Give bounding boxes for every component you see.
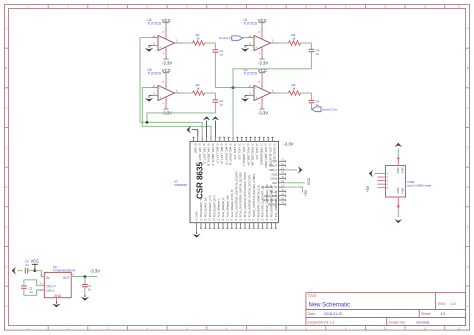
svg-text:SPK_RIGHT_P: SPK_RIGHT_P <box>211 147 215 166</box>
svg-text:Aout_Whisper_Mic: Aout_Whisper_Mic <box>226 195 230 217</box>
capacitor C7 <box>84 277 86 284</box>
svg-text:1.0: 1.0 <box>451 302 456 306</box>
node A junction <box>232 86 235 89</box>
op-amp U4 pin 8 V+ to VCC <box>165 23 167 39</box>
svg-text:1k: 1k <box>196 87 200 91</box>
svg-text:USB_N: USB_N <box>269 168 278 172</box>
capacitor C2 <box>214 93 216 100</box>
svg-text:TL072CD: TL072CD <box>148 72 162 76</box>
op-amp U5 pin 8 V+ to VCC <box>165 73 167 89</box>
svg-text:G: G <box>5 264 7 268</box>
op-amp U5 TL072CD <box>158 86 175 101</box>
svg-text:-3.3V: -3.3V <box>258 110 268 115</box>
op-amp U1 pin 4 V- to -3.3V <box>261 47 263 59</box>
resistor R4 <box>277 42 289 44</box>
svg-text:1/1: 1/1 <box>441 312 446 316</box>
svg-text:+5V: +5V <box>366 185 370 192</box>
svg-text:1u: 1u <box>316 52 320 56</box>
svg-text:RESET: RESET <box>269 202 278 206</box>
svg-text:LED_RED_PWM: LED_RED_PWM <box>264 147 268 168</box>
svg-text:AIO2_1V5: AIO2_1V5 <box>255 147 259 160</box>
svg-text:Aout_Whisper_L: Aout_Whisper_L <box>217 197 221 217</box>
svg-text:-3.3V: -3.3V <box>284 142 294 147</box>
svg-text:GND: GND <box>54 294 62 298</box>
wire C2 to loop junction <box>147 102 215 122</box>
arrow microphone left <box>187 126 191 134</box>
op-amp U4 pin 3 (non-inverting input) <box>152 44 159 46</box>
svg-text:C: C <box>467 106 469 110</box>
wire C1 to node A <box>215 52 247 87</box>
svg-text:PIO11/UART_RX: PIO11/UART_RX <box>204 197 208 217</box>
svg-text:SPK_RIGHT_N: SPK_RIGHT_N <box>207 147 211 166</box>
op-amp U1 pin 3 (non-inverting input) <box>248 44 255 46</box>
op-amp U4 pin 1 (output) <box>175 42 181 44</box>
svg-text:VCC: VCC <box>162 68 171 73</box>
svg-text:SPDIF_OUT/PCM_OUT/SPI_CSB/PC: SPDIF_OUT/PCM_OUT/SPI_CSB/PC <box>252 173 256 217</box>
svg-text:BAT: BAT <box>272 181 277 185</box>
capacitor C4 <box>310 43 312 49</box>
op-amp U1 TL072CD <box>254 36 271 51</box>
arrow left at C6 <box>12 267 16 275</box>
svg-text:1u: 1u <box>25 263 29 267</box>
svg-text:-3.3V: -3.3V <box>90 269 100 274</box>
wire USB_N to arrow <box>285 169 297 171</box>
svg-text:E: E <box>467 185 469 189</box>
svg-text:MID4: MID4 <box>401 188 405 195</box>
svg-text:micro USBFemale: micro USBFemale <box>407 184 432 188</box>
svg-text:TITLE:: TITLE: <box>308 294 318 298</box>
svg-text:VCC: VCC <box>30 259 39 264</box>
border division ticks <box>47 5 49 9</box>
svg-text:MID2: MID2 <box>401 167 405 174</box>
connector USB1 top shield pin <box>397 159 399 165</box>
connector USB1 left pins 1-5 <box>377 173 385 175</box>
op-amp U5 pin 3 (non-inverting input) <box>152 94 159 96</box>
svg-text:B: B <box>6 66 8 70</box>
ground at U1 pin 3 <box>245 44 248 46</box>
op-amp U2 pin 2 (inverting input) <box>248 87 255 89</box>
op-amp U4 pin 2 (inverting input) <box>152 37 159 39</box>
svg-text:GND: GND <box>272 172 278 176</box>
capacitor C1 <box>214 43 216 50</box>
svg-text:CFLY+: CFLY+ <box>46 284 56 288</box>
wire BAT to VCC label <box>285 182 305 184</box>
arrow to speaker left <box>203 116 211 120</box>
svg-text:PIO16/SPI_CSB/PCM_CLK: PIO16/SPI_CSB/PCM_CLK <box>256 185 260 217</box>
svg-text:clomads: clomads <box>416 321 430 325</box>
ground at U2 pin 3 <box>245 94 248 96</box>
op-amp U1 pin 1 (output) <box>271 42 277 44</box>
svg-text:TPS60400DBVR: TPS60400DBVR <box>53 268 76 272</box>
resistor R1 <box>181 42 193 44</box>
IC U6 TPS60400DBVR body <box>44 272 71 297</box>
wire U4 feedback loop to CSR pin <box>140 38 202 137</box>
svg-text:G: G <box>467 264 469 268</box>
svg-text:VCC: VCC <box>307 177 311 185</box>
op-amp U2 TL072CD <box>254 86 271 101</box>
wire VCC node to IN pin <box>35 271 44 277</box>
svg-text:CFLY-: CFLY- <box>46 289 55 293</box>
svg-text:AIO0_1V5: AIO0_1V5 <box>233 147 237 160</box>
connector USB1 bottom shield pin <box>397 197 399 205</box>
svg-text:EasyEDA V5.1.3: EasyEDA V5.1.3 <box>308 321 335 325</box>
capacitor C5 flying cap loop <box>24 280 42 286</box>
op-amp U4 TL072CD <box>158 36 175 51</box>
svg-text:1u: 1u <box>220 103 224 107</box>
op-amp U2 pin 3 (non-inverting input) <box>248 94 255 96</box>
svg-text:CSR 8635: CSR 8635 <box>196 162 205 199</box>
svg-text:PCM_SYNC/SPDIF_IN/PCM_OUT/SPI: PCM_SYNC/SPDIF_IN/PCM_OUT/SPI <box>239 172 243 217</box>
IC U3 right pins and labels <box>279 160 286 162</box>
wire USB1 pin1 to arrow <box>374 173 377 175</box>
arrow up at USB1 top <box>395 143 403 147</box>
svg-text:PIO12/UART_CTS: PIO12/UART_CTS <box>208 195 212 217</box>
arrow down at USB1 bottom <box>395 219 403 223</box>
op-amp U1 pin 8 V+ to VCC <box>261 23 263 39</box>
arrow to speaker right <box>212 116 220 120</box>
svg-text:Sound In: Sound In <box>219 36 232 40</box>
svg-text:LED_GREEN_1: LED_GREEN_1 <box>242 147 246 167</box>
svg-text:D: D <box>467 146 469 150</box>
op-amp U5 pin 1 (output) <box>175 92 181 94</box>
svg-text:1k: 1k <box>292 87 296 91</box>
svg-text:A: A <box>6 27 8 31</box>
capacitor C6 <box>17 270 23 272</box>
IC U6 pin stubs <box>42 284 45 286</box>
op-amp U1 pin 2 (inverting input) <box>248 37 255 39</box>
svg-text:GND: GND <box>194 147 198 153</box>
IC U3 bottom pins <box>196 223 198 232</box>
svg-text:PIO0_USB_DN: PIO0_USB_DN <box>251 147 255 166</box>
svg-text:CHARGE_5V: CHARGE_5V <box>262 185 278 189</box>
svg-text:D: D <box>5 146 7 150</box>
svg-text:TL072CD: TL072CD <box>148 22 162 26</box>
arrow left at USB1 pin1 <box>369 170 373 178</box>
svg-text:MIC_RIGHT_P: MIC_RIGHT_P <box>224 147 228 165</box>
capacitor C3 <box>310 93 312 100</box>
port Sound Out <box>310 103 312 109</box>
svg-text:PCM_OUT/SPDIF_OUT/PCM_CLK/SPI: PCM_OUT/SPDIF_OUT/PCM_CLK/SPI <box>234 171 238 217</box>
op-amp U2 pin 1 (output) <box>271 92 277 94</box>
svg-text:PCM_CLK/PCM_SYNC/SPDIF_OUT/S: PCM_CLK/PCM_SYNC/SPDIF_OUT/S <box>243 172 247 217</box>
svg-text:-3.3V: -3.3V <box>162 60 172 65</box>
svg-text:2018-01-25: 2018-01-25 <box>324 312 342 316</box>
svg-text:REV:: REV: <box>438 302 446 306</box>
svg-text:PCM_IN/SPDIF_IN/PCM_SYNC/SPI: PCM_IN/SPDIF_IN/PCM_SYNC/SPI <box>248 175 252 218</box>
svg-text:Drawn By:: Drawn By: <box>389 321 406 325</box>
svg-text:TL072CD: TL072CD <box>244 22 258 26</box>
connector USB1 body <box>386 166 406 198</box>
wire CHARGE_5V to +5V label <box>285 187 302 192</box>
svg-text:AIO1_1V5: AIO1_1V5 <box>238 147 242 160</box>
ground at IC U3 bottom GND pin <box>196 232 198 234</box>
svg-text:Date:: Date: <box>308 312 317 316</box>
svg-text:A: A <box>467 27 469 31</box>
svg-text:GND: GND <box>195 211 199 217</box>
svg-text:MIC_RIGHT_N: MIC_RIGHT_N <box>229 147 233 165</box>
svg-text:1k: 1k <box>196 37 200 41</box>
svg-text:CSR8635: CSR8635 <box>174 183 187 187</box>
resistor R3 <box>277 92 289 94</box>
op-amp U5 pin 2 (inverting input) <box>152 87 159 89</box>
svg-text:MID1: MID1 <box>396 167 400 174</box>
svg-text:PIO13/UART_RTS: PIO13/UART_RTS <box>212 195 216 217</box>
IC U3 CSR8635 body <box>190 141 279 222</box>
svg-text:1u: 1u <box>88 288 92 292</box>
svg-text:-3.3V: -3.3V <box>258 60 268 65</box>
op-amp U5 pin 4 V- to -3.3V <box>165 97 167 109</box>
svg-text:1u: 1u <box>29 290 33 294</box>
ground at IC U6 GND pin <box>55 302 57 304</box>
ground at C7 <box>84 295 86 297</box>
title block frame <box>306 293 466 326</box>
svg-text:H: H <box>5 304 7 308</box>
svg-text:Sheet:: Sheet: <box>421 312 431 316</box>
svg-text:SPK_LEFT_P: SPK_LEFT_P <box>202 147 206 164</box>
svg-text:MIC_LEFT_P: MIC_LEFT_P <box>216 147 220 163</box>
svg-text:1k: 1k <box>292 37 296 41</box>
svg-text:New Schematic: New Schematic <box>309 302 351 308</box>
ground at U4 pin 3 <box>149 44 152 46</box>
wire node A down to CSR pin <box>232 88 234 137</box>
junction C2-loop <box>146 121 149 124</box>
IC U3 top pins <box>192 137 194 142</box>
svg-text:PIO10/UART_TX: PIO10/UART_TX <box>199 197 203 217</box>
svg-text:E: E <box>6 185 8 189</box>
svg-text:OUT: OUT <box>63 276 70 280</box>
svg-text:Aout_Whisper_R: Aout_Whisper_R <box>221 197 225 217</box>
svg-text:USB_P: USB_P <box>269 164 278 168</box>
svg-text:MIC_B: MIC_B <box>269 190 277 194</box>
svg-text:LED0_RED: LED0_RED <box>264 194 278 198</box>
svg-text:B: B <box>467 66 469 70</box>
power flag VCC at regulator input <box>34 269 37 272</box>
wire U5 feedback loop to CSR pin <box>142 88 211 137</box>
svg-text:H: H <box>467 304 469 308</box>
svg-text:VREGENABLE: VREGENABLE <box>260 147 264 165</box>
op-amp U4 pin 4 V- to -3.3V <box>165 47 167 59</box>
svg-text:LED1_BLUE: LED1_BLUE <box>263 198 278 202</box>
svg-text:Aout_Whisper_PCM_IN: Aout_Whisper_PCM_IN <box>230 190 234 218</box>
svg-text:1u: 1u <box>220 53 224 57</box>
svg-text:C: C <box>5 106 7 110</box>
svg-text:MIC_LEFT_N: MIC_LEFT_N <box>220 147 224 163</box>
svg-text:SPK_LEFT_N: SPK_LEFT_N <box>198 147 202 164</box>
svg-text:MID3: MID3 <box>396 188 400 195</box>
svg-text:VCC: VCC <box>258 18 267 23</box>
op-amp U2 pin 4 V- to -3.3V <box>261 97 263 109</box>
svg-text:PIO1_USB_DP: PIO1_USB_DP <box>246 147 250 166</box>
wire OUT to -3.3V net <box>71 276 97 278</box>
svg-text:CVDD: CVDD <box>270 177 277 181</box>
wire C4 loop to node A <box>233 52 311 88</box>
svg-text:Sound Out: Sound Out <box>322 108 337 112</box>
svg-text:VCC: VCC <box>162 18 171 23</box>
ground at U5 pin 3 <box>149 94 152 96</box>
svg-text:PIO7: PIO7 <box>271 159 277 163</box>
svg-text:+5V: +5V <box>304 189 308 196</box>
op-amp U2 pin 8 V+ to VCC <box>261 73 263 89</box>
svg-text:TL072CD: TL072CD <box>244 72 258 76</box>
resistor R2 <box>181 92 193 94</box>
